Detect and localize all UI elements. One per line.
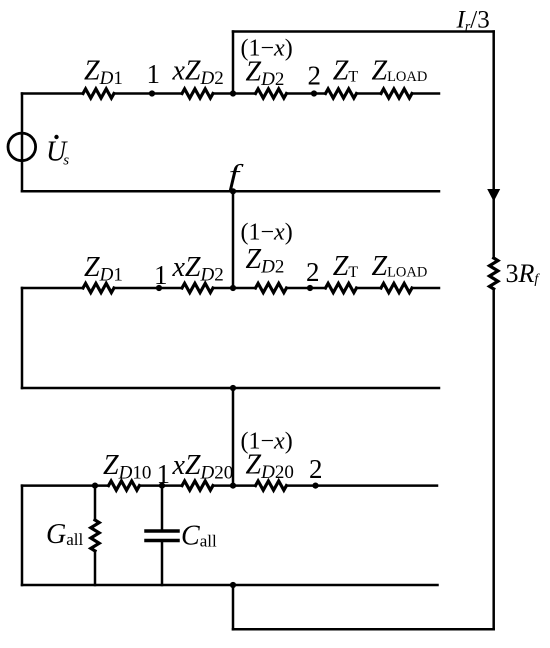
- wire: right rail upper segment: [492, 32, 495, 259]
- resistor ZLOAD row1: [381, 89, 412, 98]
- node 1 dot row2: [156, 285, 162, 291]
- node f dot: [230, 188, 236, 194]
- resistor (1-x)ZD2 row1: [256, 89, 287, 98]
- voltage source Us circle: [8, 133, 36, 161]
- wire: fault branch row2 to row3: [232, 388, 235, 486]
- resistor ZT row1: [326, 89, 357, 98]
- svg-text:(1−x): (1−x): [241, 220, 293, 246]
- resistor ZD1 row2: [83, 283, 114, 292]
- junction dot row1-fault: [230, 90, 236, 96]
- svg-text:Us: Us: [46, 137, 69, 169]
- wire: Gall branch bottom: [94, 551, 97, 585]
- resistor xZD2 row1: [182, 89, 213, 98]
- resistor ZD10 row3: [109, 481, 140, 490]
- wire: top rail: [233, 30, 494, 33]
- wire: fault branch f to row2: [232, 191, 235, 288]
- resistor ZD1 row1: [83, 89, 114, 98]
- wire: row1 main line segments: [22, 92, 439, 95]
- wire: Call branch top: [161, 486, 164, 530]
- svg-text:1: 1: [147, 59, 161, 89]
- resistor (1-x)ZD2 row2: [256, 283, 287, 292]
- node 2 dot row2: [307, 285, 313, 291]
- wire: fault branch drop to bottom rail: [232, 585, 235, 629]
- wire: right rail lower segment: [492, 289, 495, 629]
- dot above Us: [54, 135, 58, 139]
- node 1 dot row1: [149, 90, 155, 96]
- wire: row2 bottom rail: [22, 387, 439, 390]
- wire: row3 bottom rail: [22, 584, 438, 587]
- wire: row1 left vertical through source: [21, 94, 24, 192]
- node 2 dot row3: [312, 483, 318, 489]
- junction dot row3 bottom rail: [230, 582, 236, 588]
- resistor (1-x)ZD20 row3: [256, 481, 287, 490]
- svg-text:2: 2: [308, 61, 322, 91]
- resistor Gall (vertical zigzag): [91, 520, 99, 551]
- wire: row2 left vertical: [21, 288, 24, 388]
- capacitor Call plates: [146, 531, 178, 541]
- resistor 3Rf (vertical zigzag): [490, 258, 498, 289]
- wire: bottom-most rail: [233, 628, 494, 631]
- wire: row3 left vertical: [21, 486, 24, 585]
- svg-text:2: 2: [306, 257, 320, 287]
- wire: Call branch bottom: [161, 542, 164, 585]
- wire: row2 main line segments: [22, 287, 439, 290]
- junction dot row2-fault: [230, 285, 236, 291]
- svg-text:2: 2: [309, 454, 323, 484]
- current arrow If/3 on right rail: [487, 189, 500, 202]
- resistor xZD20 row3: [182, 481, 213, 490]
- resistor xZD2 row2: [182, 283, 213, 292]
- resistor ZLOAD row2: [381, 283, 412, 292]
- junction dot Gall row3: [92, 483, 98, 489]
- wire: row3 main line segments: [22, 484, 437, 487]
- svg-text:1: 1: [154, 260, 168, 290]
- wire: fault branch top rail to row1: [232, 32, 235, 94]
- wire: Gall branch top: [94, 486, 97, 520]
- resistor ZT row2: [326, 283, 357, 292]
- node 2 dot row1: [311, 90, 317, 96]
- svg-text:1: 1: [157, 459, 171, 489]
- node 1 dot row3: [159, 483, 165, 489]
- wire: f rail: [22, 190, 439, 193]
- junction dot row3-fault: [230, 483, 236, 489]
- svg-text:Ir/3: Ir/3: [456, 7, 490, 35]
- junction dot row2 bottom rail: [230, 385, 236, 391]
